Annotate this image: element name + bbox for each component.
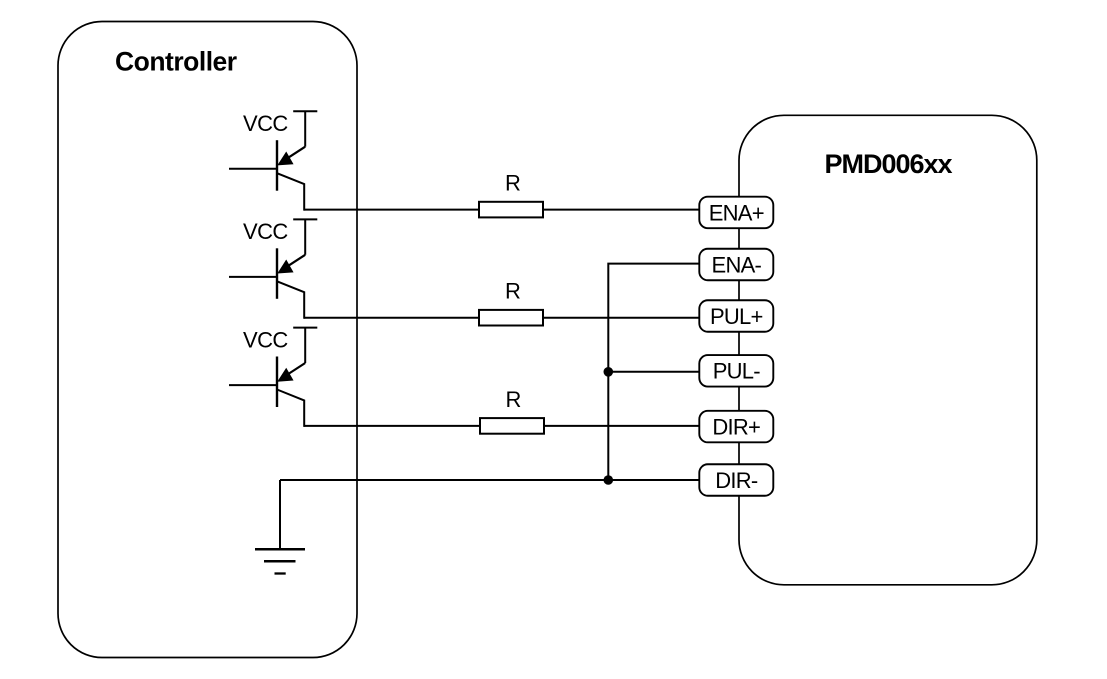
wire PUL+ net (Q2 collector to PUL+ pin) [304,317,699,319]
svg-text:PMD006xx: PMD006xx [824,149,952,179]
svg-text:Controller: Controller [115,47,237,77]
transistor Q3 (PNP) [229,357,305,427]
transistor Q1 (PNP) [229,140,305,210]
wire DIR+ net (Q3 collector to DIR+ pin) [304,425,699,427]
svg-text:DIR-: DIR- [715,468,758,493]
wire PUL- net (bus to PUL- pin) [608,371,699,373]
svg-text:VCC: VCC [243,219,288,244]
VCC rail Q3 [293,328,317,363]
junction dot DIR- / bus [604,475,614,485]
wire ENA+ net (Q1 collector to ENA+ pin) [304,209,699,211]
wire DIR- net (ground to DIR- pin) [280,479,699,481]
wire ENA- net (L from negative bus to ENA- pin) [608,264,699,480]
svg-text:VCC: VCC [243,327,288,352]
pin PUL- [699,355,773,387]
pin DIR- [699,464,773,496]
svg-text:R: R [505,279,521,304]
ground [255,480,305,574]
VCC rail Q1 [293,111,317,146]
pin PUL+ [699,300,773,332]
pin DIR+ [699,411,773,443]
svg-text:VCC: VCC [243,111,288,136]
pin ENA+ [699,197,773,229]
transistor Q2 (PNP) [229,248,305,318]
controller box [58,22,357,658]
svg-text:DIR+: DIR+ [712,415,760,440]
driver box PMD006xx [739,115,1037,585]
svg-text:PUL-: PUL- [713,359,761,384]
pin ENA- [699,249,773,281]
svg-text:R: R [506,387,522,412]
svg-text:PUL+: PUL+ [710,304,763,329]
VCC rail Q2 [293,219,317,254]
resistor R3 [480,418,544,434]
svg-text:ENA+: ENA+ [709,200,764,225]
resistor R1 [479,202,543,218]
junction dot PUL- / bus [604,367,614,377]
svg-text:ENA-: ENA- [712,252,762,277]
resistor R2 [479,310,543,326]
svg-text:R: R [505,171,521,196]
